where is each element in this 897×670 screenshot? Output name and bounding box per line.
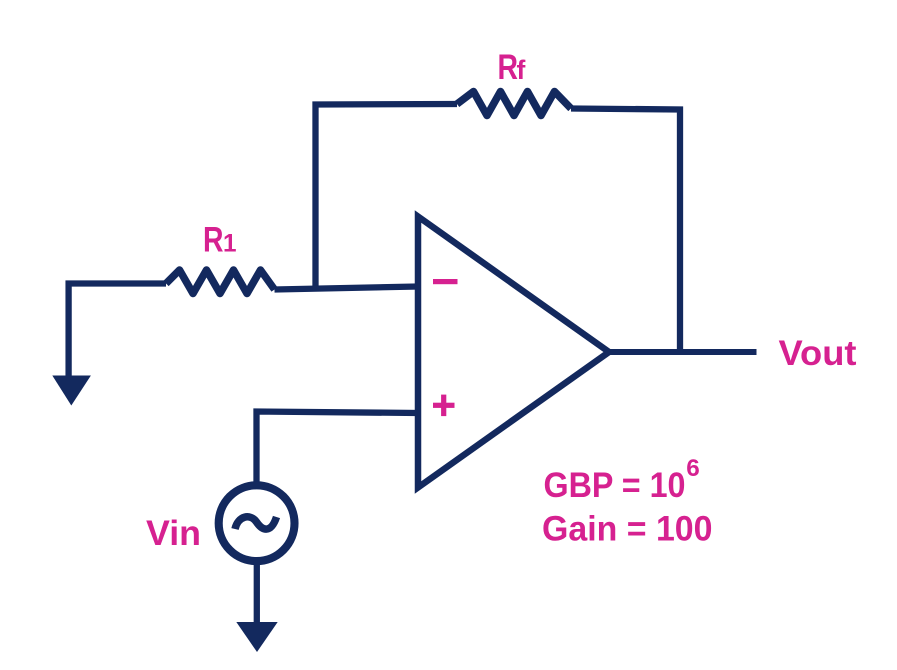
svg-text:Gain = 100: Gain = 100 <box>542 510 713 549</box>
svg-text:R: R <box>498 48 519 87</box>
svg-text:Vin: Vin <box>146 514 201 553</box>
svg-text:6: 6 <box>686 455 700 482</box>
svg-text:f: f <box>517 55 526 85</box>
svg-text:Vout: Vout <box>779 334 857 373</box>
svg-text:GBP = 10: GBP = 10 <box>544 466 686 505</box>
svg-text:R: R <box>203 221 224 260</box>
svg-text:1: 1 <box>223 230 237 258</box>
